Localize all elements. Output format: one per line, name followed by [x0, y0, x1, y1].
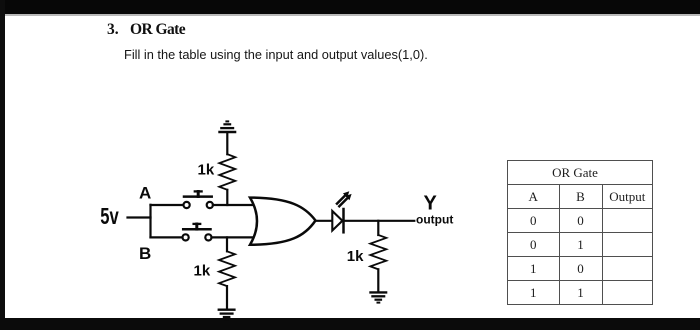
- wire branch to switch B: [151, 236, 183, 238]
- svg-text:output: output: [416, 213, 453, 227]
- left black strip: [0, 0, 5, 330]
- pushbutton switch A: bar: [184, 195, 212, 198]
- svg-text:1k: 1k: [347, 248, 364, 265]
- svg-text:Y: Y: [424, 193, 438, 215]
- LED D1: cathode bar: [342, 209, 345, 232]
- wire switch A to OR gate input (node with R1): [213, 204, 257, 206]
- top black bar: [0, 0, 700, 14]
- svg-text:B: B: [139, 244, 151, 263]
- wire OR gate output to LED: [316, 220, 333, 222]
- heading number "3.": [107, 21, 119, 39]
- LED D1: triangle: [332, 211, 342, 231]
- bottom black bar: [0, 318, 700, 330]
- resistor R1 (1k pull, top): [226, 190, 228, 205]
- wire branch to switch A: [151, 204, 184, 206]
- truth table: [507, 160, 653, 305]
- pushbutton switch B: actuator: [194, 223, 201, 225]
- instruction line: [124, 47, 428, 62]
- inverted ground symbol (top): [218, 131, 236, 133]
- ground symbol (output): [369, 291, 387, 293]
- resistor R3 (1k output): [377, 221, 379, 235]
- wire from 5v to branch node: [128, 216, 151, 218]
- svg-text:5v: 5v: [100, 203, 119, 229]
- resistor R2 (1k pull, bottom): [226, 237, 228, 251]
- svg-text:1k: 1k: [198, 162, 215, 179]
- wire branch vertical: [149, 205, 151, 238]
- pushbutton switch A: terminals: [184, 202, 190, 208]
- wire switch B to OR gate input (node with R2): [212, 236, 258, 238]
- wire LED to output node: [344, 220, 415, 222]
- svg-text:1k: 1k: [194, 263, 211, 280]
- LED D1: light arrow 2: [339, 198, 347, 206]
- heading "OR Gate": [130, 21, 185, 39]
- pushbutton switch B: terminals: [183, 234, 189, 240]
- ground symbol (bottom left): [218, 309, 236, 311]
- pushbutton switch A: actuator: [195, 190, 202, 192]
- OR gate U1: [250, 198, 316, 245]
- LED D1: light arrow 1: [337, 195, 345, 203]
- pushbutton switch B: bar: [183, 228, 210, 231]
- svg-text:A: A: [139, 184, 151, 203]
